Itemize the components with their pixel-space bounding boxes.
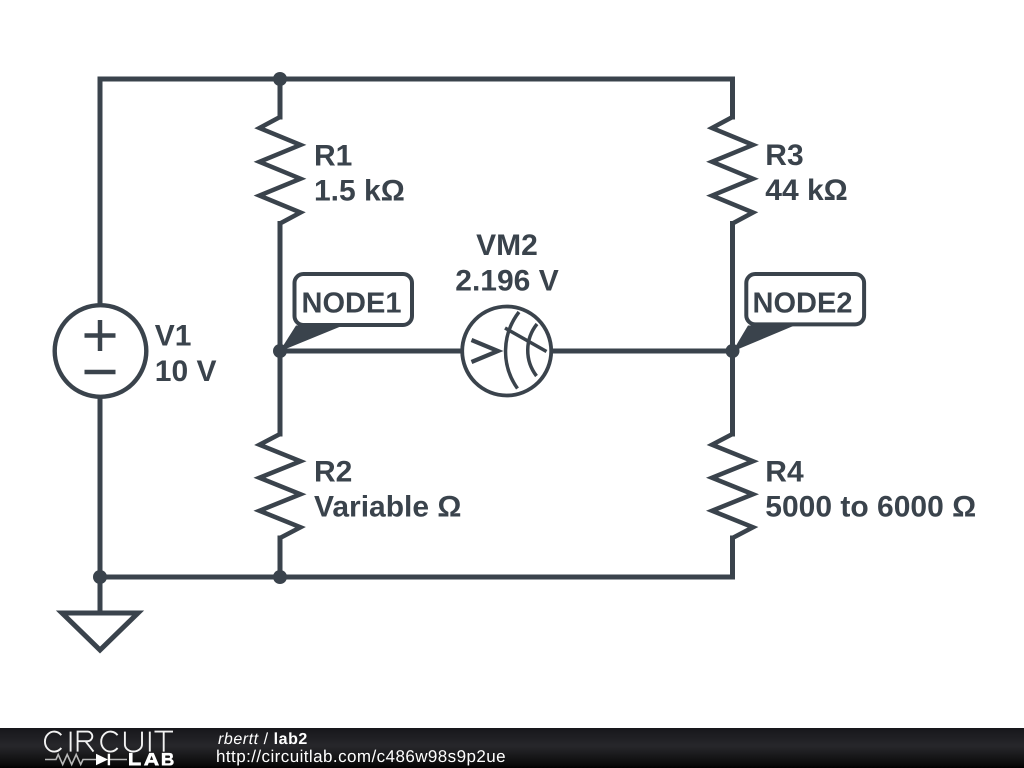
- svg-text:2.196 V: 2.196 V: [455, 264, 558, 297]
- resistor R1: [260, 117, 301, 224]
- wire R3 bottom to R4 top through NODE2: [730, 224, 735, 435]
- V1 minus terminal mark: [85, 370, 116, 375]
- svg-text:1.5 kΩ: 1.5 kΩ: [314, 174, 405, 207]
- svg-text:44 kΩ: 44 kΩ: [765, 174, 847, 207]
- svg-text:10 V: 10 V: [155, 355, 217, 388]
- svg-text:R2: R2: [314, 455, 352, 488]
- junction NODE1: [273, 344, 287, 358]
- footer url text: [216, 747, 506, 767]
- svg-text:VM2: VM2: [476, 229, 538, 262]
- wire top rail: [100, 77, 733, 82]
- junction bottom rail / R2: [273, 570, 287, 584]
- wire R3 top stub: [730, 79, 735, 117]
- svg-text:V1: V1: [155, 320, 192, 353]
- wire R4 bottom stub: [730, 538, 735, 577]
- wire R2 bottom stub: [278, 538, 283, 577]
- wire R1 bottom to R2 top through NODE1: [278, 224, 283, 435]
- svg-text:NODE1: NODE1: [302, 288, 402, 320]
- footer bar: [0, 728, 1024, 768]
- svg-text:NODE2: NODE2: [753, 288, 853, 320]
- resistor R3: [712, 117, 753, 224]
- VM2 chevron mark: [472, 340, 499, 362]
- wire voltmeter to NODE2: [552, 349, 733, 354]
- node NODE2 callout: [733, 274, 865, 352]
- svg-text:5000 to 6000 Ω: 5000 to 6000 Ω: [765, 491, 976, 524]
- voltage source V1: [55, 305, 147, 397]
- voltmeter VM2: [462, 307, 551, 396]
- svg-text:R3: R3: [765, 139, 803, 172]
- node NODE1 callout: [280, 274, 413, 352]
- junction bottom rail / ground: [93, 570, 107, 584]
- V1 plus terminal mark: [85, 320, 116, 351]
- resistor R4: [712, 434, 753, 538]
- CircuitLab logo: [36, 728, 186, 768]
- wire NODE1 to voltmeter: [280, 349, 461, 354]
- svg-text:R4: R4: [765, 455, 804, 488]
- wire R1 top stub: [278, 79, 283, 117]
- wire bottom rail: [100, 575, 733, 580]
- wire left lower (V1 to bottom rail): [98, 398, 103, 578]
- VM2 meter scale arcs: [506, 312, 519, 389]
- resistor R2: [260, 434, 301, 538]
- ground: [62, 577, 138, 650]
- junction NODE2: [726, 344, 740, 358]
- svg-text:Variable Ω: Variable Ω: [314, 491, 461, 524]
- wire left upper (top rail to V1): [98, 79, 103, 305]
- VM2 meter needle: [505, 328, 547, 352]
- svg-text:R1: R1: [314, 139, 352, 172]
- footer title text: [218, 731, 308, 749]
- junction top rail / R1: [273, 72, 287, 86]
